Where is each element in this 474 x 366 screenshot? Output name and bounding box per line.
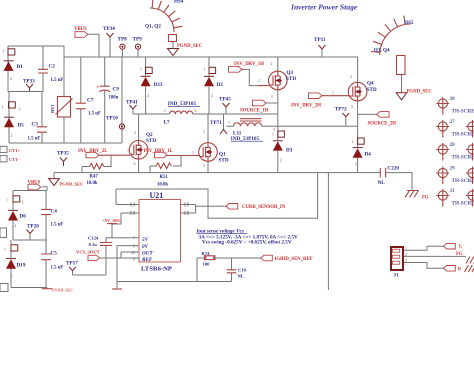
- svg-text:2: 2: [211, 94, 213, 98]
- diode D4: [352, 138, 372, 167]
- tag N: [444, 266, 462, 273]
- svg-text:OUT: OUT: [142, 251, 153, 257]
- svg-text:10.0k: 10.0k: [87, 181, 98, 186]
- svg-text:1: 1: [6, 199, 8, 203]
- testpoint TP10: [106, 116, 125, 130]
- testpoint TP41: [126, 100, 138, 110]
- tag INV_DRV_1H: [229, 62, 265, 72]
- wire R47 net: [82, 155, 111, 172]
- capacitor C2: [38, 64, 63, 84]
- testpoint TP45: [219, 97, 231, 108]
- svg-text:HS5: HS5: [404, 20, 414, 26]
- varistor RV1: [50, 97, 73, 118]
- svg-text:2: 2: [271, 62, 273, 66]
- svg-text:TP20: TP20: [27, 223, 39, 229]
- tag VCS_3OUT: [76, 249, 100, 260]
- capacitor C5: [41, 251, 63, 271]
- svg-text:STD: STD: [286, 76, 296, 82]
- mounting hole H2: [436, 119, 474, 138]
- svg-text:2: 2: [134, 131, 136, 135]
- svg-text:TP35: TP35: [57, 151, 69, 157]
- tag CURR_SENSOR_IN: [226, 204, 286, 211]
- svg-text:INV_DRV_1L: INV_DRV_1L: [144, 149, 173, 154]
- op-amp U21 sensor LTSR6-NP: [131, 191, 188, 273]
- tag SOURCE_2H: [368, 112, 397, 127]
- svg-text:VBUS: VBUS: [28, 180, 41, 185]
- svg-text:1: 1: [2, 106, 4, 110]
- svg-text:CT1-: CT1-: [9, 157, 20, 162]
- svg-text:N: N: [458, 268, 462, 273]
- capacitor C124: [88, 236, 112, 247]
- svg-text:1: 1: [204, 68, 206, 72]
- svg-text:2: 2: [10, 274, 12, 278]
- svg-text:TP45: TP45: [219, 97, 231, 103]
- svg-text:NL: NL: [378, 180, 386, 186]
- wire R74 C10 IGRID net: [197, 258, 261, 282]
- wire Q4 source D4 column: [357, 100, 359, 172]
- svg-text:3: 3: [405, 259, 407, 263]
- svg-text:27: 27: [450, 119, 456, 125]
- inductor L11: [228, 119, 275, 142]
- power +5V_SEC: [102, 218, 121, 224]
- wire D6 C4 block: [13, 191, 47, 241]
- wire OUT net: [121, 252, 139, 258]
- diode D1: [3, 49, 24, 81]
- svg-text:RV1: RV1: [50, 104, 55, 113]
- inductor L7: [164, 101, 201, 126]
- testpoint TP71: [210, 120, 227, 134]
- svg-text:3: 3: [271, 95, 273, 99]
- svg-text:2: 2: [11, 134, 13, 138]
- testpoint TP20: [27, 223, 40, 233]
- svg-text:1.5 uF: 1.5 uF: [51, 266, 64, 271]
- svg-text:TP41: TP41: [126, 100, 138, 106]
- wire phase node A line: [133, 107, 278, 130]
- wire ground rail y172 with C220 break and FG drop: [54, 173, 412, 191]
- ground PGND_SEC bottom left: [42, 288, 73, 293]
- svg-text:IND_53P105: IND_53P105: [168, 101, 197, 107]
- heatsink HS4: [145, 0, 184, 42]
- svg-text:Q1, Q2: Q1, Q2: [145, 24, 161, 30]
- svg-text:TH-SCREW6: TH-SCREW6: [452, 109, 474, 115]
- mounting hole H7: [466, 143, 474, 161]
- ground PGND_SEC top: [168, 44, 203, 56]
- svg-text:TP33: TP33: [23, 79, 35, 85]
- wire Q2 drain source: [138, 114, 140, 173]
- transistor Q3: [258, 62, 296, 99]
- svg-text:1: 1: [332, 92, 334, 96]
- wire VBUS lower tag feed: [42, 187, 47, 191]
- svg-text:D4: D4: [365, 152, 372, 158]
- svg-text:0.1u: 0.1u: [89, 242, 98, 247]
- svg-text:8: 8: [133, 258, 135, 262]
- wire HS5 stem: [401, 75, 403, 93]
- svg-text:TP71: TP71: [210, 120, 222, 126]
- svg-text:1: 1: [140, 68, 142, 72]
- svg-text:D3: D3: [286, 148, 293, 154]
- tag VBUS lower: [28, 180, 41, 190]
- svg-text:1.5 uF: 1.5 uF: [51, 78, 64, 83]
- testpoint TP34: [103, 26, 115, 37]
- svg-text:Vcs swing -0.625V ~ +0.625V, o: Vcs swing -0.625V ~ +0.625V, offset 2.5V: [202, 240, 292, 246]
- svg-text:INV_DRV_1H: INV_DRV_1H: [234, 62, 264, 67]
- svg-text:TP72: TP72: [335, 107, 347, 113]
- wire 5V net: [106, 238, 139, 243]
- testpoint TP11: [314, 37, 326, 49]
- capacitor C4: [41, 209, 63, 228]
- tag INV_DRV_1L: [144, 149, 173, 158]
- node gate Q4 wire: [322, 95, 349, 97]
- svg-text:31: 31: [450, 188, 456, 194]
- svg-text:C3: C3: [32, 122, 39, 128]
- wire R51 net: [150, 156, 181, 173]
- resistor R74: [202, 251, 216, 266]
- resistor R51: [156, 163, 171, 187]
- diode D2: [204, 67, 224, 98]
- mounting hole H8: [466, 167, 474, 185]
- wire long vertical to bottom: [327, 173, 329, 290]
- svg-text:1: 1: [258, 79, 260, 83]
- transistor Q2: [127, 131, 156, 166]
- svg-text:1: 1: [228, 121, 230, 125]
- svg-text:3: 3: [134, 162, 136, 166]
- svg-text:STD: STD: [367, 87, 377, 93]
- svg-text:PGND_SEC: PGND_SEC: [60, 181, 84, 186]
- svg-text:D2: D2: [217, 82, 224, 88]
- svg-text:C10: C10: [238, 268, 247, 273]
- svg-text:TH-SCREW6: TH-SCREW6: [452, 132, 474, 138]
- svg-text:CT1+: CT1+: [9, 148, 21, 153]
- wire VBUS top rail network: [8, 46, 358, 143]
- tag VBUS top: [74, 27, 88, 37]
- svg-text:CURR_SENSOR_IN: CURR_SENSOR_IN: [242, 205, 286, 210]
- tag IGRID_SEN_REF: [261, 255, 313, 262]
- svg-text:C124: C124: [88, 236, 99, 241]
- capacitor C10: [227, 268, 247, 279]
- capacitor C3: [28, 122, 48, 142]
- testpoint TP72: [335, 107, 350, 117]
- diode D5: [2, 102, 24, 138]
- svg-text:2: 2: [405, 253, 407, 257]
- mounting hole H6: [466, 120, 474, 138]
- wire D19 C5 block: [11, 240, 47, 289]
- transistor Q4: [332, 75, 377, 109]
- svg-text:2: 2: [350, 75, 352, 79]
- mounting hole H9: [466, 189, 474, 207]
- svg-text:VBUS: VBUS: [74, 27, 87, 32]
- connector J1: [391, 247, 407, 279]
- svg-text:Inverter Power Stage: Inverter Power Stage: [290, 3, 358, 12]
- svg-text:INV_DRV_2H: INV_DRV_2H: [291, 104, 321, 109]
- svg-text:Q4: Q4: [367, 81, 374, 87]
- testpoint TP9: [133, 37, 143, 50]
- node Iout note text: [196, 229, 298, 246]
- diode D19: [4, 245, 26, 278]
- ground FG chassis mid: [405, 191, 429, 201]
- wire TP17 net: [73, 245, 107, 275]
- svg-text:1: 1: [164, 109, 166, 113]
- wire Q3 drain source D3 column: [277, 57, 279, 173]
- diode D33: [140, 67, 163, 98]
- node gate Q1 wire: [167, 155, 200, 157]
- svg-text:IGRID_SEN_REF: IGRID_SEN_REF: [275, 257, 313, 262]
- wire J1 pin2 to FG: [403, 255, 466, 257]
- resistor R47: [87, 164, 104, 186]
- title Inverter Power Stage: [290, 3, 358, 12]
- svg-text:30: 30: [450, 96, 456, 102]
- diode D3: [272, 131, 293, 163]
- svg-text:C4: C4: [51, 209, 58, 215]
- svg-text:1: 1: [352, 140, 354, 144]
- ground PGND_SEC left: [49, 179, 84, 187]
- svg-text:J1: J1: [394, 273, 400, 279]
- svg-text:1: 1: [192, 151, 194, 155]
- svg-text:TP34: TP34: [103, 26, 115, 32]
- svg-text:Q3, Q4: Q3, Q4: [374, 48, 390, 54]
- power bar bottom: [112, 288, 122, 290]
- svg-text:FG: FG: [422, 196, 429, 201]
- connector CT1+: [0, 146, 21, 153]
- svg-text:TP8: TP8: [118, 37, 128, 43]
- svg-text:VCS_3OUT: VCS_3OUT: [76, 249, 100, 254]
- svg-text:R74: R74: [202, 251, 211, 256]
- svg-text:TP17: TP17: [66, 261, 78, 267]
- svg-text:PGND_SEC: PGND_SEC: [407, 90, 433, 95]
- svg-text:STD: STD: [219, 158, 229, 164]
- svg-text:1: 1: [4, 248, 6, 252]
- svg-text:7: 7: [133, 237, 135, 241]
- mounting hole H5: [436, 188, 474, 207]
- svg-text:HS4: HS4: [174, 0, 184, 5]
- svg-text:3: 3: [351, 105, 353, 109]
- node gate Q3 wire: [258, 85, 269, 87]
- svg-text:28: 28: [450, 142, 456, 148]
- heatsink HS5: [371, 16, 414, 75]
- svg-text:C220: C220: [388, 166, 400, 172]
- svg-text:TP9: TP9: [133, 37, 143, 43]
- svg-text:3: 3: [273, 128, 275, 132]
- wire 0V net: [117, 246, 139, 282]
- svg-text:U21: U21: [150, 191, 164, 200]
- svg-text:1: 1: [405, 247, 407, 251]
- tag INV_DRV_2H: [291, 93, 322, 109]
- wire Q1 drain source: [207, 114, 209, 173]
- svg-text:5V: 5V: [142, 237, 149, 243]
- transistor Q1: [192, 130, 229, 169]
- mounting hole H3: [436, 142, 474, 161]
- svg-text:SOURCE_1H: SOURCE_1H: [240, 109, 269, 114]
- svg-text:100: 100: [203, 261, 211, 266]
- svg-text:2: 2: [15, 224, 17, 228]
- wire D33 and D2 columns: [146, 57, 209, 114]
- svg-text:10.0k: 10.0k: [157, 182, 168, 187]
- svg-text:TP11: TP11: [314, 37, 326, 43]
- connector CT1-: [0, 156, 20, 162]
- svg-text:SOURCE_2H: SOURCE_2H: [368, 122, 397, 127]
- svg-text:C5: C5: [51, 251, 58, 257]
- svg-text:3: 3: [203, 164, 205, 168]
- svg-text:29: 29: [450, 166, 456, 172]
- svg-text:100u: 100u: [109, 96, 119, 101]
- svg-text:REF: REF: [142, 257, 153, 263]
- wire Q3 gate jog: [242, 69, 258, 85]
- testpoint TP35: [57, 151, 69, 167]
- svg-text:NL: NL: [238, 274, 244, 279]
- tag L: [444, 243, 463, 249]
- svg-text:STD: STD: [146, 138, 156, 144]
- svg-text:D6: D6: [20, 214, 27, 220]
- svg-text:1.5 uF: 1.5 uF: [51, 223, 64, 228]
- svg-text:LTSR6-NP: LTSR6-NP: [141, 266, 172, 273]
- svg-text:L7: L7: [164, 120, 170, 126]
- svg-text:1: 1: [127, 150, 129, 154]
- svg-text:C7: C7: [87, 98, 94, 104]
- wire U21 left pins: [112, 205, 139, 238]
- node gate Q2 wire: [99, 154, 130, 156]
- svg-text:1.5 uF: 1.5 uF: [28, 137, 41, 142]
- svg-text:TH-SCREW6: TH-SCREW6: [452, 201, 474, 207]
- svg-text:D19: D19: [17, 263, 26, 269]
- svg-text:D5: D5: [18, 123, 25, 129]
- svg-text:TH-SCREW6: TH-SCREW6: [452, 155, 474, 161]
- svg-text:+5V_SEC: +5V_SEC: [102, 218, 121, 223]
- svg-text:R51: R51: [160, 175, 169, 180]
- testpoint TP17: [66, 261, 78, 271]
- svg-text:R47: R47: [90, 175, 99, 180]
- wire U21 sensor loop box: [116, 173, 318, 219]
- svg-text:2: 2: [280, 159, 282, 163]
- tag INV_DRV_2L: [78, 149, 107, 158]
- mounting hole H1: [436, 96, 474, 115]
- svg-text:TP10: TP10: [106, 116, 118, 122]
- svg-text:2: 2: [203, 130, 205, 134]
- wire VCS REF net: [100, 257, 139, 259]
- svg-text:INV_DRV_2L: INV_DRV_2L: [78, 149, 107, 154]
- wire VBUS tag feed and testpoint stems top: [88, 34, 322, 57]
- svg-text:3: 3: [19, 108, 21, 112]
- testpoint TP8: [118, 37, 128, 50]
- svg-text:1.5 uF: 1.5 uF: [88, 112, 101, 117]
- mounting hole H4: [436, 166, 474, 185]
- svg-text:TH-SCREW6: TH-SCREW6: [452, 178, 474, 184]
- capacitor C7: [76, 98, 101, 117]
- wire bottom ground rail: [117, 282, 232, 290]
- svg-text:9: 9: [133, 245, 135, 249]
- svg-text:D1: D1: [17, 64, 24, 70]
- svg-text:PGND_SEC: PGND_SEC: [52, 288, 73, 293]
- svg-text:L: L: [459, 245, 462, 250]
- capacitor C9 polarized: [97, 85, 120, 101]
- svg-text:2: 2: [355, 163, 357, 167]
- svg-text:C2: C2: [49, 64, 56, 70]
- svg-text:PGND_SEC: PGND_SEC: [177, 44, 203, 49]
- ground PGND_SEC right: [396, 90, 432, 100]
- connector stub mid left: [0, 228, 7, 238]
- svg-text:10: 10: [131, 251, 135, 255]
- connector stub bottom left: [0, 284, 8, 292]
- capacitor C220: [378, 166, 400, 187]
- svg-text:2: 2: [10, 77, 12, 81]
- svg-text:D33: D33: [154, 82, 163, 88]
- svg-text:1: 1: [272, 133, 274, 137]
- wire phase node B line: [227, 103, 377, 126]
- svg-text:0V: 0V: [142, 244, 149, 250]
- wire U21 right pins and CURR tag feed: [181, 205, 227, 214]
- ground FG right edge: [456, 252, 474, 264]
- svg-text:3: 3: [22, 201, 24, 205]
- testpoint TP33: [23, 79, 35, 92]
- svg-text:2: 2: [148, 94, 150, 98]
- wire J1 pin3 to N: [403, 263, 444, 269]
- diode D6: [6, 196, 26, 228]
- svg-text:1: 1: [3, 50, 5, 54]
- svg-text:C9: C9: [113, 87, 120, 93]
- svg-text:3: 3: [195, 109, 197, 113]
- ground chassis after N: [465, 265, 474, 272]
- wire J1 pin1 to L: [403, 246, 444, 250]
- tag SOURCE_1H: [240, 100, 269, 113]
- svg-text:FG: FG: [456, 252, 463, 257]
